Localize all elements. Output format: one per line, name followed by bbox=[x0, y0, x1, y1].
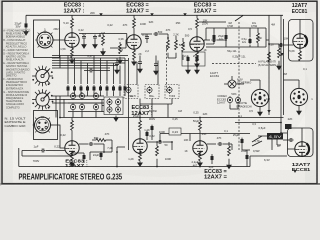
rail voltage arrow bbox=[99, 13, 102, 16]
pot cluster frame bbox=[104, 97, 123, 115]
balance/volume pot pair bottom bbox=[107, 106, 112, 114]
coupling cap C6 bottom bbox=[147, 141, 156, 143]
ground V2 bbox=[132, 60, 136, 66]
grid resistor V6b bbox=[228, 146, 231, 156]
legend of inputs A-F bbox=[3, 29, 30, 110]
top rail branch right bbox=[268, 15, 284, 133]
output stage box bottom bbox=[288, 128, 314, 157]
power switch block bbox=[267, 133, 283, 140]
wires socket2 to V8 grid bbox=[51, 125, 65, 148]
V4 grid wiring bbox=[266, 40, 293, 48]
bass cap dark bbox=[213, 34, 216, 41]
mid B+ rail (bottom channel feed) bbox=[60, 117, 284, 119]
coupling cap C4 bbox=[204, 39, 210, 41]
coupling node line V1-V2 bbox=[79, 34, 127, 43]
triode V5 bbox=[133, 138, 147, 154]
ecap near V6 bbox=[211, 155, 214, 162]
output stage box top bbox=[289, 20, 314, 62]
plate resistor V8 bbox=[71, 118, 73, 121]
bottom tone pots 50% bbox=[227, 96, 232, 104]
V4 cathode resistor bbox=[299, 49, 301, 51]
bottom channel extra verticals bbox=[172, 142, 250, 167]
paper background bbox=[0, 0, 320, 186]
ground V1 bbox=[70, 58, 74, 64]
cathode resistor V8 bbox=[71, 151, 73, 156]
bottom mid rail arrows bbox=[280, 53, 283, 56]
decoupling cap C0 bbox=[25, 15, 27, 22]
misc interconnect wires top bbox=[98, 33, 127, 48]
cap beside V2 bbox=[145, 35, 149, 40]
output socket J4 bbox=[290, 88, 307, 105]
V4 plate lead bbox=[299, 20, 301, 34]
ground rail right stub bbox=[250, 156, 287, 167]
balance/volume pot pair top bbox=[107, 98, 112, 106]
bottom mid horizontals bbox=[160, 134, 250, 143]
coupling cap C5 bottom bbox=[79, 143, 88, 145]
ecap 25uF bottom bbox=[241, 138, 244, 145]
pilot lamp bbox=[228, 80, 236, 88]
triode V2 bbox=[127, 34, 141, 50]
cap 0,47 horizontal in bus bbox=[88, 69, 93, 73]
V7 dark plate crescent bbox=[307, 144, 310, 155]
trimmer row lower leads bbox=[68, 92, 125, 96]
ground V5 bbox=[138, 161, 142, 167]
socket grounds bbox=[260, 106, 299, 110]
bottom e-cap 24uF bbox=[100, 152, 103, 159]
selector gang dashed mid bbox=[166, 46, 168, 93]
dashed gang box BAL. bbox=[145, 85, 159, 99]
coupling cap C3 bbox=[141, 33, 152, 35]
coupling cap C1 bbox=[82, 35, 86, 40]
coupling cap C2 bbox=[93, 35, 97, 40]
rotary selector wafer S1a bbox=[32, 66, 53, 87]
coupling cap C7 bottom bbox=[207, 143, 216, 145]
ground V6 bbox=[198, 161, 202, 167]
labels tone section bbox=[218, 21, 258, 59]
input socket box 2 bbox=[34, 111, 58, 140]
bus verticals bbox=[60, 56, 125, 85]
heater dashed leads bbox=[212, 63, 256, 65]
bottom scan edge bbox=[0, 183, 320, 185]
resistor R4 bbox=[119, 44, 122, 54]
cathode resistor V2 bbox=[133, 49, 135, 51]
grid resistor R3 bbox=[102, 36, 105, 46]
selector gang vertical bbox=[128, 58, 130, 150]
plate resistor V6 bbox=[199, 118, 201, 121]
V4 dark plate crescent bbox=[305, 36, 308, 47]
dashed gang box VOL. bbox=[124, 85, 138, 99]
plate resistor V1 bbox=[71, 15, 73, 18]
ground V3 bbox=[195, 62, 199, 68]
V8 bypass cap bbox=[83, 154, 86, 161]
input level trimmer row bbox=[67, 85, 127, 92]
plate resistor V3 bbox=[196, 15, 198, 18]
legend note N.15 entrate bbox=[5, 117, 26, 128]
scan texture smudges bbox=[3, 2, 317, 183]
power box tails bbox=[272, 140, 281, 151]
mid rail second bbox=[235, 122, 281, 124]
input socket box 1 bbox=[34, 20, 60, 58]
triode V3 bbox=[190, 36, 204, 52]
triode V4 bbox=[293, 33, 307, 49]
ecap 25uF 300V bbox=[151, 125, 154, 132]
gang switch arm bbox=[235, 16, 243, 22]
DIN input socket J1 bbox=[35, 32, 55, 48]
bottom ground rail bbox=[19, 148, 250, 167]
triode V6 bbox=[193, 140, 207, 156]
resistor on right rail bbox=[268, 52, 271, 62]
DIN input socket J2 bbox=[33, 117, 53, 133]
rotary2 to pot cluster wires bbox=[52, 96, 104, 118]
ground below C0 bbox=[24, 30, 28, 36]
extra junction dots bbox=[59, 117, 282, 168]
border frame bbox=[2, 1, 317, 183]
V7 plate lead bbox=[301, 128, 303, 141]
bus decoupling caps with grounds bbox=[116, 58, 118, 61]
switch block small bbox=[285, 124, 292, 129]
bottom resistor 680 bbox=[96, 139, 106, 142]
gang box feed wires bbox=[137, 61, 172, 105]
plate resistor V2 bbox=[133, 15, 135, 18]
ecap 1,2K node bbox=[146, 131, 149, 138]
triode V7 bbox=[295, 141, 309, 157]
treble cap bbox=[249, 38, 252, 45]
triode V8 bbox=[65, 140, 79, 156]
tone network resistors bbox=[167, 38, 169, 40]
cathode resistor V1 bbox=[71, 47, 73, 49]
dashed gang box TONI bbox=[165, 85, 179, 99]
V7 grid wiring bbox=[281, 133, 295, 149]
cathode resistor V5 bbox=[139, 151, 141, 154]
top tone line y22 bbox=[199, 21, 226, 23]
output socket J3 bbox=[251, 89, 268, 106]
bottom wires bbox=[104, 140, 125, 167]
resistor 157 bbox=[156, 146, 159, 156]
triode V1 bbox=[65, 32, 79, 48]
V8 grid network bottom-left bbox=[22, 151, 72, 157]
box 0,23 bbox=[169, 128, 181, 135]
plate resistor V5 bbox=[139, 118, 141, 121]
switch contacts bbox=[252, 136, 267, 146]
bottom pot field rows bbox=[70, 92, 75, 100]
mid cap bbox=[225, 34, 228, 41]
treble pot resistor bbox=[257, 33, 260, 43]
ground V8 bbox=[70, 161, 74, 167]
cathode resistor V6 bbox=[199, 151, 201, 156]
tone pot network bbox=[206, 28, 266, 47]
selector bus wires bbox=[52, 56, 128, 69]
socket leads bbox=[250, 80, 299, 89]
pot cluster ground bbox=[114, 116, 118, 122]
component value labels bbox=[53, 11, 313, 169]
heater note text bbox=[258, 60, 278, 67]
rotary selector wafer S1b bbox=[32, 89, 53, 110]
B+ top rail bbox=[26, 14, 268, 16]
mid verticals right of pots bbox=[140, 104, 168, 118]
wires socket1 to V1 grid bbox=[53, 39, 65, 41]
decoupling box bbox=[182, 52, 205, 66]
grid resistor V4 bbox=[278, 48, 281, 58]
tone gang dashed vertical bbox=[238, 22, 240, 150]
cathode resistor V3 bbox=[196, 51, 198, 53]
